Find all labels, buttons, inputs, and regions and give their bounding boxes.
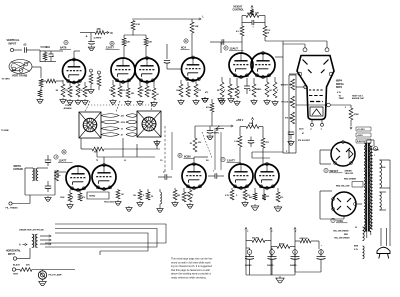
- svg-text:30MFD: 30MFD: [267, 265, 274, 267]
- wire 22K tops: [124, 35, 146, 38]
- label X: [115, 93, 117, 95]
- ground: [202, 97, 208, 102]
- svg-text:tened on wall in full view whi: tened on wall in full view while work-: [171, 261, 211, 264]
- transformer VERT TRANS pictorial: [9, 60, 32, 74]
- label 5.5 MEG: [41, 46, 51, 49]
- label HEIGHT CONTROL: [233, 7, 245, 12]
- svg-text:INPUT: INPUT: [8, 254, 15, 256]
- svg-text:FIL. TRANS: FIL. TRANS: [6, 207, 19, 210]
- ground: [207, 135, 213, 140]
- terminal vertical input: [10, 48, 13, 51]
- resistor 3.3M: [263, 26, 271, 37]
- svg-text:HORIZ: HORIZ: [89, 196, 96, 198]
- resistor V11 k2: [262, 188, 266, 200]
- svg-text:PIX SOCKET: PIX SOCKET: [298, 140, 311, 142]
- arrow feed 2: [40, 239, 51, 241]
- svg-text:22K: 22K: [126, 42, 130, 44]
- terminal horiz: [13, 248, 30, 260]
- svg-text:PILOT LAMP: PILOT LAMP: [49, 274, 63, 277]
- svg-text:330: 330: [198, 142, 201, 144]
- resistor V9 k3: [188, 188, 192, 202]
- node G: [62, 150, 66, 154]
- resistor V9 k1: [173, 188, 177, 200]
- resistor V3 k2: [145, 82, 149, 97]
- label YOKE ASSEM: [64, 105, 73, 110]
- capacitor 2200: [288, 132, 294, 139]
- yoke dash leader: [85, 101, 152, 112]
- yoke right box: [137, 111, 161, 137]
- wire pots bottom: [283, 150, 296, 153]
- svg-text:12AT7: 12AT7: [227, 159, 235, 163]
- svg-text:TRAP: TRAP: [339, 97, 345, 100]
- resistor V5 k1: [220, 77, 224, 97]
- label BLACK 50K: [13, 264, 30, 267]
- svg-text:+: +: [86, 35, 88, 39]
- svg-text:40MFD: 40MFD: [245, 264, 252, 267]
- label blk: [382, 167, 387, 169]
- svg-text:50K: 50K: [26, 265, 30, 267]
- wire input network: [40, 50, 56, 62]
- label 47: [302, 132, 304, 135]
- label 47: [87, 89, 89, 92]
- resistor V11 k3: [276, 188, 283, 202]
- label B+: [216, 130, 219, 132]
- ground: [88, 46, 94, 51]
- wire: [90, 33, 92, 42]
- ground: [193, 99, 199, 104]
- ground: [234, 100, 240, 105]
- AC plug: [377, 247, 390, 258]
- label X: [277, 90, 279, 92]
- svg-text:12AT7: 12AT7: [106, 46, 114, 50]
- ground: [178, 99, 184, 104]
- label 47K: [79, 89, 83, 92]
- label brown: [354, 246, 359, 252]
- label 56: [151, 196, 153, 198]
- label WIDTH: [14, 166, 24, 171]
- label X: [72, 90, 74, 92]
- label L2: [124, 160, 126, 162]
- resistor V2 k3: [126, 82, 130, 98]
- svg-text:47: 47: [302, 132, 304, 135]
- svg-text:RED-YELLOW: RED-YELLOW: [336, 186, 350, 188]
- pin CRT top 1: [303, 48, 307, 52]
- CRT grid dashes: [309, 90, 324, 102]
- tube V5 12AU7a: [229, 53, 253, 79]
- label 2: [345, 107, 346, 109]
- svg-text:47: 47: [52, 55, 54, 58]
- label 270: [65, 90, 69, 92]
- svg-text:A: A: [65, 42, 67, 45]
- tube V9: [182, 163, 206, 190]
- resistor 50K test: [20, 268, 32, 272]
- resistor 470K anode: [349, 105, 359, 120]
- svg-text:100K: 100K: [60, 197, 65, 199]
- svg-text:YELLOW-GREEN: YELLOW-GREEN: [334, 238, 350, 240]
- resistor 1.2K: [234, 127, 242, 148]
- tube V6 12AU7b: [251, 52, 275, 79]
- svg-text:56: 56: [151, 196, 153, 198]
- resistor 470 mid: [206, 99, 214, 112]
- wire osc coupling: [164, 44, 181, 69]
- transformer sec small 2: [380, 192, 382, 210]
- svg-text:+250 V: +250 V: [236, 120, 244, 122]
- ground: [60, 98, 66, 103]
- label X: [236, 195, 238, 197]
- wire pot arm: [251, 6, 253, 10]
- label X: [72, 197, 74, 199]
- svg-text:250: 250: [121, 115, 124, 117]
- wire pot arm up: [251, 118, 253, 127]
- wire v13 box: [320, 191, 344, 219]
- ground: [37, 98, 43, 103]
- wire trans bottom: [367, 231, 371, 238]
- picture tube 6BP4 outline: [297, 56, 334, 120]
- wire CRT heater top: [283, 41, 327, 48]
- resistor 47K boost: [95, 28, 105, 34]
- svg-text:FOCUS: FOCUS: [281, 102, 288, 104]
- svg-text:6W4GT: 6W4GT: [330, 170, 339, 173]
- label ion trap: [339, 96, 365, 101]
- svg-text:1M: 1M: [56, 90, 59, 92]
- svg-text:270: 270: [109, 90, 112, 92]
- capacitor C6: [45, 181, 51, 192]
- ground: [187, 203, 193, 208]
- ground: [288, 140, 294, 145]
- label red-green: [344, 179, 357, 181]
- label 1: [374, 155, 375, 157]
- wire width loop: [25, 168, 55, 195]
- label 1K: [186, 195, 189, 197]
- svg-text:22K: 22K: [148, 42, 152, 44]
- wire B+ vertical: [282, 41, 284, 153]
- capacitor coupl 2: [208, 171, 224, 179]
- label 600: [300, 238, 309, 240]
- resistor V2 k2: [118, 82, 122, 97]
- label 12AT7 3: [221, 157, 241, 162]
- label 10K: [195, 26, 199, 28]
- wire arrow down: [350, 120, 352, 129]
- capacitor input: [49, 51, 54, 62]
- svg-text:INPUT: INPUT: [9, 42, 17, 46]
- svg-text:BLACK: BLACK: [13, 264, 21, 267]
- svg-text:4700: 4700: [121, 121, 125, 124]
- resistor 22K a: [122, 38, 130, 46]
- svg-text:4.1K: 4.1K: [136, 23, 141, 26]
- label 6AT6: [60, 46, 72, 50]
- label X: [192, 195, 194, 197]
- svg-text:20MFD: 20MFD: [290, 265, 297, 267]
- label 12AT7 2: [54, 155, 73, 163]
- svg-text:1M: 1M: [121, 194, 124, 196]
- CRT deflection dashes: [303, 60, 329, 74]
- resistor pix pot: [289, 112, 295, 124]
- label X: [143, 195, 145, 197]
- tube V4 6C4: [182, 56, 205, 82]
- node A arrow: [19, 243, 27, 246]
- label under lines: [19, 229, 44, 232]
- yoke left coil circle: [83, 118, 97, 132]
- svg-text:BRN: BRN: [354, 246, 359, 248]
- label 1M: [269, 90, 272, 92]
- svg-text:1: 1: [374, 155, 375, 157]
- linkage dashed: [202, 132, 212, 158]
- label red-yellow: [336, 186, 350, 188]
- resistor 2.2M pot: [55, 170, 61, 181]
- resistor V8 g: [138, 189, 142, 200]
- terminal fil: [9, 195, 30, 205]
- resistor V5 k3: [235, 78, 239, 98]
- wire top rail L: [132, 16, 205, 21]
- svg-text:L2: L2: [124, 160, 126, 162]
- resistor V7 k: [68, 190, 72, 202]
- label 6C4: [181, 46, 190, 50]
- ground: [125, 100, 131, 105]
- label 1M: [121, 194, 124, 196]
- fuse symbol: [374, 147, 378, 151]
- capacitor 4.7MFD: [88, 37, 101, 45]
- wire v9 plate top: [194, 157, 208, 162]
- svg-text:5.5 MEG: 5.5 MEG: [41, 46, 51, 49]
- label red: [344, 234, 349, 236]
- svg-text:6CB6: 6CB6: [184, 155, 191, 159]
- ground: [219, 99, 225, 104]
- label 100: [133, 195, 136, 197]
- svg-text:This extra large page size can: This extra large page size can be fas-: [171, 258, 213, 261]
- CRT gun box: [310, 107, 323, 116]
- ground filter: [276, 276, 284, 283]
- label 270: [109, 90, 112, 92]
- pin CRT neck l: [304, 85, 308, 89]
- resistor 5K 2W: [246, 239, 271, 243]
- label TO VERT: [2, 79, 11, 81]
- svg-text:12AU7: 12AU7: [230, 47, 239, 51]
- svg-text:220: 220: [266, 196, 269, 198]
- svg-text:1M: 1M: [269, 90, 272, 92]
- svg-text:12AT7: 12AT7: [59, 159, 67, 163]
- resistor V4 k3: [194, 80, 198, 97]
- ground: [137, 100, 143, 105]
- tube V3 12AT7b: [135, 57, 159, 84]
- ground: [251, 204, 259, 210]
- svg-text:TO VERT: TO VERT: [2, 79, 11, 81]
- svg-text:CONTROL: CONTROL: [233, 10, 245, 12]
- label 470: [198, 89, 202, 92]
- capacitor .05: [23, 44, 27, 53]
- label PILOT LAMP: [49, 274, 63, 277]
- svg-text:47K: 47K: [79, 89, 83, 92]
- transformer width: [32, 168, 38, 181]
- label yel-grn: [333, 231, 349, 233]
- wire route 3: [55, 233, 148, 251]
- svg-text:6DP4: 6DP4: [336, 86, 343, 89]
- capacitor height: [242, 20, 265, 29]
- svg-text:22: 22: [142, 90, 144, 92]
- ground: [151, 101, 157, 106]
- wire: [221, 42, 242, 53]
- label 22: [142, 90, 144, 92]
- yoke winding 1: [101, 114, 137, 118]
- resistor 1.5M: [236, 26, 244, 36]
- node F 12AU7: [224, 46, 244, 51]
- resistor V6 k3: [273, 77, 277, 98]
- wire vert 2: [171, 132, 173, 170]
- label C: [247, 231, 249, 233]
- wire anode: [331, 104, 352, 106]
- svg-text:250K: 250K: [247, 13, 253, 15]
- ground: [172, 201, 178, 206]
- wire boost: [80, 33, 95, 39]
- resistor V1 grid: [68, 82, 72, 97]
- label 1 MEG: [231, 89, 260, 91]
- svg-text:TO KINE: TO KINE: [1, 130, 9, 132]
- resistor 600: [295, 239, 319, 249]
- tube V1 6AT6: [63, 58, 86, 84]
- node E: [184, 39, 188, 43]
- svg-text:BLK: BLK: [382, 167, 387, 169]
- svg-text:B BOOST: B BOOST: [357, 141, 367, 143]
- ground: [242, 201, 248, 206]
- yoke winding 3: [101, 127, 137, 131]
- svg-text:47: 47: [121, 133, 123, 136]
- wire V4 plate: [190, 19, 194, 58]
- svg-text:6AT6: 6AT6: [60, 46, 67, 50]
- small box: [352, 182, 363, 188]
- wire osc to grid: [32, 67, 41, 78]
- label hold: [104, 201, 114, 204]
- wire vert 1: [164, 126, 166, 172]
- resistor osc leak: [39, 79, 43, 87]
- tube V11 12AT7b: [255, 163, 279, 190]
- svg-text:ANODE CAP: ANODE CAP: [352, 97, 365, 100]
- ground: [115, 200, 121, 205]
- wire: [27, 49, 41, 51]
- resistor V6 k1: [252, 78, 256, 97]
- wire top left rail: [54, 50, 63, 52]
- wire: [97, 149, 155, 164]
- tube V13 5U4 internals: [332, 192, 357, 216]
- label D: [271, 231, 273, 233]
- label FIL: [6, 207, 19, 210]
- resistor V10 k2: [243, 188, 250, 200]
- control box: [87, 192, 109, 199]
- svg-text:ASSEM.: ASSEM.: [64, 107, 73, 110]
- transformer fil winding: [363, 246, 365, 259]
- svg-text:M: M: [111, 32, 113, 35]
- wire: [104, 138, 160, 157]
- filter cap C4: [295, 249, 326, 272]
- resistor 22K b: [144, 38, 152, 46]
- transformer power secondary: [369, 143, 371, 232]
- svg-text:ing on chassis bench. It is su: ing on chassis bench. It is suggested: [171, 265, 212, 268]
- resistor interstage b: [97, 71, 101, 90]
- wire cap feeds: [250, 263, 296, 275]
- capacitor V56: [244, 78, 250, 94]
- wire: [32, 270, 75, 271]
- resistor 470b: [261, 127, 270, 149]
- label +250V: [236, 120, 244, 122]
- wire Bplus 2: [270, 228, 272, 276]
- label 5K 2W: [252, 238, 260, 240]
- label 470: [122, 89, 126, 92]
- label 1K: [149, 90, 152, 92]
- label 5V: [355, 227, 358, 229]
- arrow feed 3: [40, 243, 51, 245]
- resistor V3 k3: [152, 82, 156, 100]
- arrow B left: [216, 126, 224, 130]
- wire vert 4: [220, 132, 222, 170]
- svg-text:that this page be fastened to: that this page be fastened to a wall: [171, 269, 210, 272]
- svg-text:VERTICAL: VERTICAL: [7, 38, 20, 42]
- svg-text:2: 2: [345, 107, 346, 109]
- wire: [240, 147, 263, 164]
- svg-text:1.2K: 1.2K: [234, 141, 239, 143]
- wire trans top: [367, 140, 374, 146]
- svg-text:B: B: [111, 43, 113, 46]
- resistor 450: [271, 245, 295, 249]
- label focus: [281, 102, 288, 104]
- resistor V11 k1: [249, 188, 257, 200]
- ground: [82, 99, 88, 104]
- ground yoke: [154, 140, 160, 145]
- label 2200: [299, 129, 304, 131]
- svg-text:C9: C9: [160, 160, 162, 162]
- wire CRT base pins: [311, 120, 324, 132]
- ground: [67, 99, 73, 104]
- svg-text:+265V: +265V: [357, 135, 364, 137]
- wire: [14, 49, 22, 51]
- wire v13 r: [356, 203, 362, 205]
- ground: [272, 100, 278, 105]
- label 47: [249, 89, 251, 92]
- label 680: [177, 195, 180, 197]
- filter cap C3: [290, 250, 300, 267]
- wire boost arrow M: [105, 31, 113, 34]
- terminal test: [12, 268, 20, 271]
- note text block: [171, 258, 213, 280]
- yoke winding 4: [101, 133, 137, 137]
- resistor V10 k1: [225, 188, 234, 200]
- capacitor coupl in: [210, 39, 224, 45]
- label 5U4G: [331, 218, 348, 223]
- yoke right coil circle: [142, 117, 156, 131]
- svg-text:600Ω W: 600Ω W: [300, 238, 309, 240]
- svg-text:HEIGHT: HEIGHT: [234, 7, 243, 9]
- label 6W4GT: [324, 168, 343, 173]
- svg-text:47: 47: [249, 89, 251, 92]
- svg-text:K: K: [179, 155, 181, 158]
- svg-text:WIDTH: WIDTH: [14, 166, 22, 168]
- wire v12: [320, 150, 331, 164]
- resistor brightness pot: [289, 79, 295, 90]
- wire sec: [380, 160, 391, 246]
- svg-text:6C4: 6C4: [181, 46, 186, 50]
- resistor V8 k: [116, 189, 120, 199]
- svg-text:680: 680: [131, 93, 134, 95]
- wire: [124, 46, 146, 58]
- pin CRT side 2: [329, 72, 333, 76]
- svg-text:RED: RED: [344, 234, 349, 236]
- resistor V9 k2: [182, 188, 186, 202]
- svg-text:T2: T2: [96, 160, 98, 162]
- label 220: [258, 89, 261, 91]
- svg-text:HOLD ADJ: HOLD ADJ: [104, 201, 114, 204]
- svg-text:HORIZONTAL: HORIZONTAL: [6, 250, 21, 253]
- wire: [40, 87, 42, 90]
- svg-text:47: 47: [87, 89, 89, 92]
- resistor V1 cath: [61, 80, 65, 97]
- svg-text:+13.5KV: +13.5KV: [357, 129, 366, 131]
